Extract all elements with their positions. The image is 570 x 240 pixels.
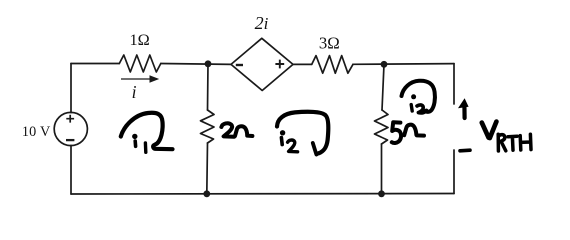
- plus sign inside source V1: [66, 115, 74, 123]
- handwritten subscript 2 of i2: [288, 140, 298, 152]
- handwritten subscript 3 of i3: [417, 105, 427, 113]
- wire right vertical upper (to open terminal): [453, 64, 455, 104]
- minus sign inside source V1: [66, 139, 74, 141]
- bottom node dot left: [203, 190, 210, 197]
- handwritten up arrow head for Vrth: [458, 98, 469, 108]
- handwritten mesh loop arrow i2: [277, 112, 328, 154]
- bottom node dot right: [378, 190, 385, 197]
- plus sign inside diamond: [275, 60, 284, 69]
- node B junction dot: [381, 61, 388, 68]
- handwritten i3 label stem: [411, 105, 412, 111]
- node A junction dot: [205, 60, 212, 67]
- current arrow for i under R1: [121, 78, 150, 79]
- dependent source U1 diamond: [231, 38, 293, 90]
- wire right vertical lower (from open terminal): [453, 150, 455, 194]
- handwritten ohm glyph of 2-ohm label: [235, 126, 252, 136]
- handwritten 5 of 5-ohm label: [392, 122, 401, 143]
- handwritten i1 label stem: [133, 141, 137, 146]
- svg-text:2i: 2i: [255, 13, 269, 33]
- handwritten 2 of 2-ohm label: [221, 123, 234, 137]
- wire left vertical above source: [70, 64, 72, 113]
- resistor R4 5ohm vertical zigzag: [375, 110, 389, 144]
- handwritten arrowhead of i2: [313, 143, 317, 155]
- minus sign inside diamond: [236, 64, 243, 66]
- resistor R3 2ohm vertical zigzag: [201, 110, 215, 143]
- handwritten i2 label stem: [280, 138, 284, 145]
- wire R4 to bottom rail: [381, 144, 383, 194]
- handwritten dot of i3: [411, 94, 416, 99]
- handwritten up arrow shaft for Vrth: [462, 104, 466, 118]
- handwritten V of Vrth: [482, 122, 497, 138]
- svg-text:1Ω: 1Ω: [129, 30, 149, 49]
- handwritten H of Vrth subscript: [520, 134, 531, 150]
- handwritten minus of Vrth polarity: [460, 148, 470, 152]
- wire from R1 to node A and diamond: [161, 63, 231, 66]
- handwritten subscript 1 of i1: [144, 143, 148, 152]
- wire diamond to R2: [293, 63, 312, 65]
- wire node B down to R4: [382, 64, 384, 110]
- wire node B to top-right corner: [353, 63, 454, 66]
- svg-text:3Ω: 3Ω: [319, 34, 340, 53]
- wire bottom rail: [71, 193, 454, 196]
- handwritten T of Vrth subscript: [508, 136, 517, 150]
- handwritten dot of i1: [132, 134, 137, 139]
- svg-text:10 V: 10 V: [22, 124, 51, 140]
- handwritten ohm glyph of 5-ohm label: [404, 125, 424, 136]
- svg-text:i: i: [132, 82, 137, 102]
- resistor R2 3ohm zigzag: [312, 56, 353, 74]
- wire left vertical below source: [70, 145, 72, 194]
- handwritten R of Vrth subscript: [498, 134, 506, 151]
- handwritten mesh loop arrow i3: [402, 81, 435, 112]
- wire node A down to R3: [207, 64, 210, 111]
- resistor R1 1ohm zigzag: [119, 55, 161, 72]
- wire top-left horizontal: [71, 63, 119, 65]
- wire R3 to bottom rail: [206, 143, 209, 194]
- handwritten mesh loop arrow i1: [121, 113, 173, 149]
- voltage source V1 circle: [54, 112, 87, 145]
- handwritten dot of i2: [280, 130, 285, 135]
